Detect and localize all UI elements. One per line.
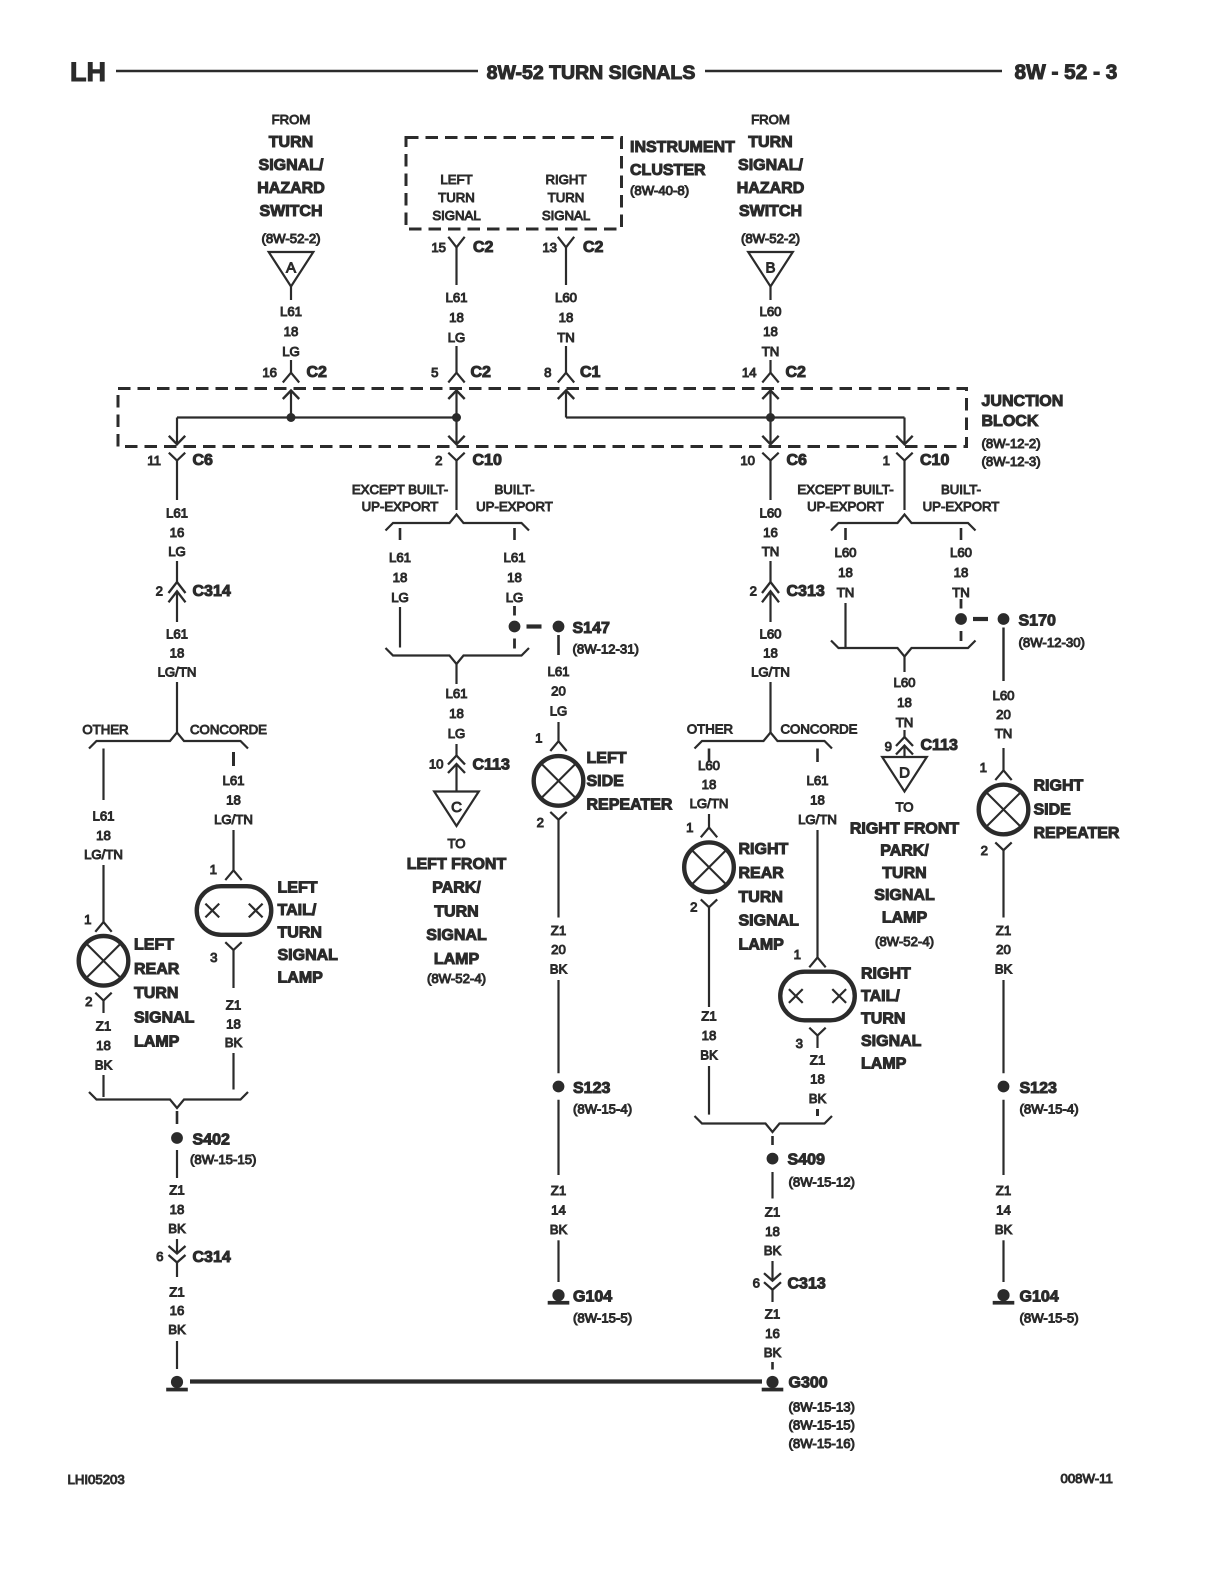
svg-text:C1: C1 xyxy=(580,364,601,381)
connector C2 pin 16 (half, opens down) xyxy=(283,373,299,383)
svg-text:TO: TO xyxy=(447,836,465,851)
svg-text:BK: BK xyxy=(168,1322,186,1337)
svg-text:LG: LG xyxy=(391,590,409,605)
svg-text:C313: C313 xyxy=(787,583,825,600)
wire merge down (right) xyxy=(903,657,905,673)
svg-text:L60: L60 xyxy=(555,290,577,305)
svg-text:6: 6 xyxy=(156,1249,163,1264)
junction block exit arrow to C6 pin 10 xyxy=(769,418,771,445)
wire tail lamp pin 3 down xyxy=(816,1036,818,1049)
svg-text:L61: L61 xyxy=(389,550,411,565)
svg-text:18: 18 xyxy=(170,646,185,661)
svg-text:CLUSTER: CLUSTER xyxy=(630,162,706,179)
svg-text:L61: L61 xyxy=(547,664,569,679)
svg-text:TAIL/: TAIL/ xyxy=(278,902,317,919)
svg-text:(8W-52-2): (8W-52-2) xyxy=(261,231,320,246)
wire lamp pin 2 down xyxy=(102,1001,104,1014)
junction node at C2 pin 14 feed xyxy=(766,413,775,422)
svg-text:L61: L61 xyxy=(280,304,302,319)
svg-text:C: C xyxy=(451,799,462,816)
svg-text:(8W-15-5): (8W-15-5) xyxy=(573,1311,632,1326)
wire to OTHER/CONCORDE split (right) xyxy=(769,682,771,733)
svg-text:(8W-52-4): (8W-52-4) xyxy=(427,971,486,986)
svg-text:UP-EXPORT: UP-EXPORT xyxy=(807,499,884,514)
svg-text:BK: BK xyxy=(995,961,1013,976)
connector C314 pin 6 (double chevron down) xyxy=(169,1246,186,1254)
svg-text:S402: S402 xyxy=(193,1132,230,1149)
wire to S123 (right) xyxy=(1002,980,1004,1073)
merge brace to S409 xyxy=(695,1116,833,1132)
tick OTHER branch (right) xyxy=(708,749,711,762)
svg-text:8W-52 TURN SIGNALS: 8W-52 TURN SIGNALS xyxy=(487,62,696,84)
svg-text:TURN: TURN xyxy=(882,865,926,882)
junction block entry arrow at C1 pin 8 xyxy=(558,391,574,400)
svg-text:20: 20 xyxy=(551,684,566,699)
svg-text:C2: C2 xyxy=(583,239,604,256)
svg-text:REPEATER: REPEATER xyxy=(1034,825,1120,842)
svg-text:OTHER: OTHER xyxy=(687,722,733,737)
svg-text:INSTRUMENT: INSTRUMENT xyxy=(630,139,735,156)
wire C10 pin 1 down xyxy=(903,461,905,511)
svg-text:C2: C2 xyxy=(471,364,492,381)
svg-text:LG/TN: LG/TN xyxy=(158,665,197,680)
lamp RIGHT REAR TURN SIGNAL LAMP xyxy=(684,842,734,892)
left body ground (splice to G300) xyxy=(171,1376,183,1388)
svg-text:BK: BK xyxy=(225,1035,243,1050)
svg-text:L60: L60 xyxy=(759,304,781,319)
dashed stem to S409 xyxy=(771,1136,774,1145)
svg-text:18: 18 xyxy=(393,570,408,585)
svg-text:LAMP: LAMP xyxy=(739,937,785,954)
wire merge down xyxy=(455,664,457,684)
splice S123 (right) xyxy=(998,1081,1010,1093)
wire B to label xyxy=(769,287,771,301)
svg-text:1: 1 xyxy=(883,453,890,468)
svg-text:2: 2 xyxy=(537,815,544,830)
svg-text:Z1: Z1 xyxy=(996,1183,1011,1198)
svg-text:LEFT: LEFT xyxy=(440,172,472,187)
dashed tick to G300 xyxy=(771,1362,774,1370)
svg-text:Z1: Z1 xyxy=(226,998,241,1013)
svg-text:1: 1 xyxy=(210,862,217,877)
connector pin 1 left side repeater (opens down) xyxy=(550,741,566,751)
svg-text:3: 3 xyxy=(210,950,217,965)
svg-text:C6: C6 xyxy=(193,452,214,469)
connector C2 pin 15 (half, opens up) xyxy=(448,237,464,248)
svg-text:RIGHT: RIGHT xyxy=(861,966,911,983)
svg-text:BK: BK xyxy=(550,961,568,976)
wire to merge brace (left) xyxy=(102,1075,104,1097)
svg-text:C113: C113 xyxy=(921,737,958,754)
svg-text:LEFT: LEFT xyxy=(587,750,627,767)
svg-text:15: 15 xyxy=(431,240,446,255)
wire to ground G104 (right) xyxy=(1002,1240,1004,1282)
svg-text:1: 1 xyxy=(84,912,91,927)
off-page connector B (triangle) xyxy=(748,252,793,287)
svg-text:REAR: REAR xyxy=(134,961,180,978)
svg-text:S123: S123 xyxy=(1020,1080,1057,1097)
svg-text:18: 18 xyxy=(897,695,912,710)
svg-text:C313: C313 xyxy=(788,1276,826,1293)
svg-text:18: 18 xyxy=(507,570,522,585)
svg-text:16: 16 xyxy=(763,525,778,540)
svg-text:(8W-15-12): (8W-15-12) xyxy=(789,1175,855,1190)
connector C2 pin 5 (half, opens down) xyxy=(448,373,464,383)
svg-text:20: 20 xyxy=(551,942,566,957)
svg-text:EXCEPT BUILT-: EXCEPT BUILT- xyxy=(797,482,893,497)
svg-text:(8W-15-4): (8W-15-4) xyxy=(1020,1102,1079,1117)
svg-text:SIGNAL: SIGNAL xyxy=(739,913,800,930)
svg-text:9: 9 xyxy=(885,739,892,754)
svg-text:Z1: Z1 xyxy=(96,1019,111,1034)
svg-text:TURN: TURN xyxy=(748,134,792,151)
svg-text:C314: C314 xyxy=(193,1249,231,1266)
svg-text:LG/TN: LG/TN xyxy=(690,796,729,811)
svg-text:2: 2 xyxy=(981,843,988,858)
wire C6 pin 10 down xyxy=(769,461,771,501)
off-page connector A (triangle) xyxy=(269,252,314,287)
svg-text:LG/TN: LG/TN xyxy=(214,812,253,827)
svg-text:Z1: Z1 xyxy=(810,1052,825,1067)
svg-text:(8W-12-2): (8W-12-2) xyxy=(982,436,1041,451)
svg-text:L60: L60 xyxy=(759,506,781,521)
svg-text:008W-11: 008W-11 xyxy=(1061,1471,1113,1486)
tick EXCEPT branch (right) xyxy=(844,528,847,540)
svg-text:2: 2 xyxy=(85,994,92,1009)
svg-text:SIDE: SIDE xyxy=(587,773,625,790)
svg-text:10: 10 xyxy=(740,453,755,468)
svg-text:C2: C2 xyxy=(473,239,494,256)
svg-text:2: 2 xyxy=(156,584,163,599)
svg-text:18: 18 xyxy=(810,793,825,808)
svg-text:G104: G104 xyxy=(573,1289,612,1306)
svg-text:TN: TN xyxy=(896,715,914,730)
dashed wire BUILT branch below S147 xyxy=(513,639,516,649)
svg-text:TN: TN xyxy=(995,726,1013,741)
svg-text:RIGHT FRONT: RIGHT FRONT xyxy=(850,821,960,838)
svg-text:L60: L60 xyxy=(698,758,720,773)
svg-text:A: A xyxy=(286,259,296,276)
connector C2 pin 13 (half, opens up) xyxy=(558,237,574,248)
svg-text:L60: L60 xyxy=(950,545,972,560)
svg-text:Z1: Z1 xyxy=(551,1183,566,1198)
connector pin 1 right rear lamp (opens down) xyxy=(701,828,717,838)
svg-text:L61: L61 xyxy=(166,506,188,521)
svg-text:BK: BK xyxy=(764,1243,782,1258)
wire S170 down xyxy=(1002,628,1004,682)
svg-text:L61: L61 xyxy=(166,627,188,642)
splice S402 xyxy=(171,1132,183,1144)
svg-text:CONCORDE: CONCORDE xyxy=(781,722,858,737)
svg-text:EXCEPT BUILT-: EXCEPT BUILT- xyxy=(352,482,448,497)
lamp LEFT TAIL/TURN SIGNAL LAMP (stadium) xyxy=(197,886,272,935)
svg-text:Z1: Z1 xyxy=(169,1285,184,1300)
svg-text:1: 1 xyxy=(686,820,693,835)
splice S170 xyxy=(998,613,1010,625)
wire S402 down xyxy=(176,1150,178,1178)
svg-text:LG: LG xyxy=(550,703,568,718)
wire to merge brace (left CONCORDE) xyxy=(232,1053,234,1090)
svg-text:C10: C10 xyxy=(473,452,502,469)
svg-text:LG/TN: LG/TN xyxy=(751,665,790,680)
svg-text:HAZARD: HAZARD xyxy=(257,180,325,197)
svg-text:C314: C314 xyxy=(193,583,231,600)
svg-text:BK: BK xyxy=(700,1048,718,1063)
svg-text:LAMP: LAMP xyxy=(861,1056,907,1073)
svg-text:18: 18 xyxy=(559,310,574,325)
wire C6 pin 11 down xyxy=(176,461,178,501)
svg-text:18: 18 xyxy=(170,1202,185,1217)
svg-text:G104: G104 xyxy=(1020,1289,1059,1306)
svg-text:FROM: FROM xyxy=(272,112,311,127)
splice S147 xyxy=(553,621,565,633)
wire C313 pin 6 down xyxy=(771,1290,773,1302)
svg-text:RIGHT: RIGHT xyxy=(545,172,586,187)
svg-text:TURN: TURN xyxy=(739,889,783,906)
wire to connector C313 pin 6 xyxy=(771,1261,773,1281)
svg-text:REPEATER: REPEATER xyxy=(587,797,673,814)
dashed tick to merge brace (right CONCORDE) xyxy=(816,1109,819,1116)
splice node on BUILT branch (right) xyxy=(955,613,967,625)
svg-text:8W - 52 - 3: 8W - 52 - 3 xyxy=(1015,61,1118,84)
dashed link to splice S170 xyxy=(973,617,988,621)
wire to left tail lamp pin 1 xyxy=(232,830,234,870)
svg-text:L61: L61 xyxy=(503,550,525,565)
merge brace to S402 xyxy=(89,1092,248,1108)
svg-text:C6: C6 xyxy=(787,452,808,469)
svg-text:TURN: TURN xyxy=(134,985,178,1002)
svg-text:Z1: Z1 xyxy=(701,1009,716,1024)
connector C6 pin 11 (half, opens up) xyxy=(169,453,185,461)
svg-text:LEFT FRONT: LEFT FRONT xyxy=(407,856,507,873)
svg-text:SIGNAL: SIGNAL xyxy=(874,887,935,904)
connector pin 2 left rear lamp (opens up) xyxy=(95,993,111,1001)
wire to merge brace (right) xyxy=(708,1066,710,1115)
svg-text:20: 20 xyxy=(996,942,1011,957)
svg-text:13: 13 xyxy=(542,240,557,255)
connector C6 pin 10 (half, opens up) xyxy=(762,453,778,461)
svg-text:18: 18 xyxy=(226,1016,241,1031)
split brace OTHER/CONCORDE (left) xyxy=(89,733,248,749)
svg-text:SIGNAL/: SIGNAL/ xyxy=(259,157,324,174)
svg-text:1: 1 xyxy=(980,760,987,775)
svg-text:BK: BK xyxy=(764,1345,782,1360)
connector C10 pin 1 (half, opens up) xyxy=(896,453,912,461)
svg-text:SIGNAL: SIGNAL xyxy=(278,947,339,964)
lamp RIGHT SIDE REPEATER xyxy=(979,785,1029,835)
junction node at C2 pin 16 feed xyxy=(287,413,296,422)
split brace EXCEPT/BUILT-UP-EXPORT (right) xyxy=(831,515,976,531)
svg-text:S147: S147 xyxy=(573,620,610,637)
svg-text:Z1: Z1 xyxy=(551,923,566,938)
svg-text:(8W-40-8): (8W-40-8) xyxy=(630,183,689,198)
svg-text:16: 16 xyxy=(170,525,185,540)
svg-text:14: 14 xyxy=(742,365,757,380)
svg-text:C2: C2 xyxy=(786,364,807,381)
svg-text:L61: L61 xyxy=(92,809,114,824)
splice S123 (left) xyxy=(553,1081,565,1093)
lamp LEFT REAR TURN SIGNAL LAMP xyxy=(79,936,129,986)
svg-text:LG: LG xyxy=(506,590,524,605)
svg-text:18: 18 xyxy=(763,646,778,661)
svg-text:(8W-15-5): (8W-15-5) xyxy=(1020,1311,1079,1326)
wire to connector C1 pin 8 xyxy=(565,346,567,373)
wire C313 down xyxy=(769,592,771,623)
svg-text:16: 16 xyxy=(170,1303,185,1318)
wire to left side repeater pin 1 xyxy=(557,722,559,741)
tick CONCORDE branch (right) xyxy=(816,749,819,763)
wire tail lamp pin 3 down xyxy=(232,950,234,988)
svg-text:14: 14 xyxy=(996,1203,1011,1218)
connector C1 pin 8 (half, opens down) xyxy=(558,373,574,383)
svg-text:(8W-52-4): (8W-52-4) xyxy=(875,934,934,949)
wire to connector C313 pin 2 xyxy=(769,561,771,582)
ground G104 (left) xyxy=(552,1289,564,1301)
svg-text:18: 18 xyxy=(763,324,778,339)
dashed wire BUILT branch to S147 xyxy=(513,606,516,616)
instrument cluster dashed box xyxy=(406,138,622,230)
lamp LEFT SIDE REPEATER xyxy=(534,756,584,806)
header rule right xyxy=(705,70,1002,73)
svg-text:LG: LG xyxy=(448,726,466,741)
svg-text:L60: L60 xyxy=(759,627,781,642)
svg-text:CONCORDE: CONCORDE xyxy=(190,722,267,737)
svg-text:S170: S170 xyxy=(1019,613,1056,630)
svg-text:LG: LG xyxy=(168,544,186,559)
svg-text:SWITCH: SWITCH xyxy=(259,203,322,220)
svg-text:S123: S123 xyxy=(573,1080,610,1097)
svg-text:18: 18 xyxy=(96,1038,111,1053)
svg-text:(8W-52-2): (8W-52-2) xyxy=(741,231,800,246)
split brace OTHER/CONCORDE (right) xyxy=(695,733,833,749)
wire C314 down xyxy=(176,592,178,623)
off-page connector C (triangle) xyxy=(434,792,479,827)
wire right turn signal down xyxy=(565,247,567,285)
svg-text:L60: L60 xyxy=(893,675,915,690)
svg-text:18: 18 xyxy=(810,1072,825,1087)
junction block dashed box xyxy=(118,389,967,447)
svg-text:LAMP: LAMP xyxy=(882,909,928,926)
svg-text:20: 20 xyxy=(996,707,1011,722)
svg-text:18: 18 xyxy=(96,828,111,843)
svg-text:8: 8 xyxy=(544,365,551,380)
wire C113 to triangle D xyxy=(903,746,905,758)
svg-text:BLOCK: BLOCK xyxy=(982,413,1039,430)
wire S147 down xyxy=(557,635,560,655)
svg-text:(8W-15-4): (8W-15-4) xyxy=(573,1102,632,1117)
svg-text:TURN: TURN xyxy=(278,925,322,942)
svg-text:C2: C2 xyxy=(307,364,328,381)
svg-text:1: 1 xyxy=(535,731,542,746)
svg-text:6: 6 xyxy=(753,1276,760,1291)
wire to connector C113 pin 10 xyxy=(455,744,457,756)
svg-text:(8W-15-13): (8W-15-13) xyxy=(789,1400,855,1415)
junction block internal wire right xyxy=(566,416,905,418)
svg-text:(8W-12-30): (8W-12-30) xyxy=(1019,635,1085,650)
svg-text:TN: TN xyxy=(557,330,575,345)
connector C313 pin 2 (double chevron) xyxy=(762,582,779,593)
svg-text:18: 18 xyxy=(449,310,464,325)
wire to connector C2 pin 5 xyxy=(455,346,457,373)
svg-text:18: 18 xyxy=(449,706,464,721)
connector pin 1 right side repeater (opens down) xyxy=(995,770,1011,780)
tick EXCEPT branch xyxy=(399,528,402,540)
svg-text:SIGNAL/: SIGNAL/ xyxy=(738,157,803,174)
svg-text:UP-EXPORT: UP-EXPORT xyxy=(362,499,439,514)
svg-text:Z1: Z1 xyxy=(169,1183,184,1198)
junction block internal wire left xyxy=(177,416,457,418)
svg-text:14: 14 xyxy=(551,1203,566,1218)
wire right rear lamp pin 2 down xyxy=(708,907,710,1007)
wire left turn signal down xyxy=(455,247,457,285)
connector C314 pin 2 (double chevron) xyxy=(169,582,186,593)
off-page connector D (triangle) xyxy=(882,757,927,792)
svg-text:LAMP: LAMP xyxy=(434,951,480,968)
svg-text:BK: BK xyxy=(995,1222,1013,1237)
splice S409 xyxy=(767,1153,779,1165)
wire to connector C314 pin 2 xyxy=(176,561,178,582)
wire to S123 (left) xyxy=(557,980,559,1073)
svg-text:PARK/: PARK/ xyxy=(432,880,481,897)
svg-text:11: 11 xyxy=(147,453,161,468)
svg-text:TURN: TURN xyxy=(861,1011,905,1028)
svg-text:BK: BK xyxy=(168,1221,186,1236)
connector pin 2 left side repeater (opens up) xyxy=(550,812,566,820)
svg-text:BUILT-: BUILT- xyxy=(494,482,534,497)
wire repeater pin 2 down xyxy=(557,820,559,918)
svg-text:C113: C113 xyxy=(473,757,510,774)
svg-text:HAZARD: HAZARD xyxy=(737,180,805,197)
svg-text:BK: BK xyxy=(809,1091,827,1106)
wire to OTHER/CONCORDE split xyxy=(176,682,178,733)
connector pin 2 right rear lamp (opens up) xyxy=(701,899,717,907)
svg-text:16: 16 xyxy=(765,1326,780,1341)
svg-text:JUNCTION: JUNCTION xyxy=(982,393,1064,410)
svg-text:TN: TN xyxy=(762,544,780,559)
svg-text:L61: L61 xyxy=(445,290,467,305)
svg-text:Z1: Z1 xyxy=(765,1307,780,1322)
connector pin 1 left tail lamp (opens down) xyxy=(225,870,241,880)
svg-text:SIGNAL: SIGNAL xyxy=(134,1009,195,1026)
svg-text:UP-EXPORT: UP-EXPORT xyxy=(476,499,553,514)
wire to connector C113 pin 9 xyxy=(903,730,905,737)
svg-text:2: 2 xyxy=(750,584,757,599)
svg-text:2: 2 xyxy=(690,900,697,915)
svg-text:LG: LG xyxy=(282,344,300,359)
wire C314 pin 6 down xyxy=(176,1263,178,1277)
splice node on BUILT branch xyxy=(509,621,521,633)
wire to right rear lamp pin 1 xyxy=(708,814,710,828)
svg-text:TN: TN xyxy=(762,344,780,359)
svg-text:SIGNAL: SIGNAL xyxy=(432,208,480,223)
svg-text:SIGNAL: SIGNAL xyxy=(426,927,487,944)
svg-text:LAMP: LAMP xyxy=(278,970,324,987)
svg-text:10: 10 xyxy=(429,757,444,772)
svg-text:LH: LH xyxy=(70,57,106,87)
svg-text:L61: L61 xyxy=(222,773,244,788)
svg-text:RIGHT: RIGHT xyxy=(739,841,789,858)
svg-text:OTHER: OTHER xyxy=(82,722,128,737)
connector pin 1 right tail lamp (opens down) xyxy=(809,958,825,968)
svg-text:SIGNAL: SIGNAL xyxy=(861,1033,922,1050)
wire to right tail lamp pin 1 xyxy=(816,830,818,958)
svg-text:TAIL/: TAIL/ xyxy=(861,988,900,1005)
wire S409 down xyxy=(771,1172,773,1199)
ground G104 (right) xyxy=(997,1289,1009,1301)
wire EXCEPT branch down xyxy=(399,607,401,648)
ground wire to G300 xyxy=(190,1379,762,1383)
svg-text:TO: TO xyxy=(895,800,913,815)
